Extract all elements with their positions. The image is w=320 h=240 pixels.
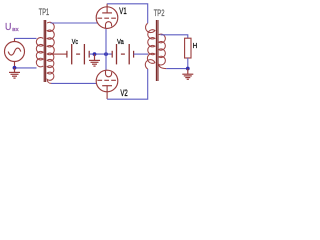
wire TP2 secondary bottom to ground node bbox=[166, 68, 188, 70]
wire TP2 secondary top to load bbox=[161, 35, 188, 38]
transformer TP2 secondary winding bbox=[159, 34, 167, 68]
transformer TP2 core bbox=[156, 20, 158, 81]
svg-text:TP1: TP1 bbox=[39, 7, 49, 17]
wire cathodes V1-V2 bbox=[105, 29, 107, 71]
transformer TP1 secondary winding (centre-tapped) bbox=[47, 22, 54, 83]
transformer TP1 primary winding bbox=[36, 38, 43, 67]
V2 cathode bbox=[106, 70, 112, 77]
battery Va bbox=[112, 44, 133, 64]
V1 cathode bbox=[106, 22, 112, 29]
svg-text:Va: Va bbox=[117, 37, 124, 46]
wire TP1 centre tap to battery Vc bbox=[52, 53, 67, 55]
triode V1 bbox=[96, 4, 118, 29]
ground (left) bbox=[9, 68, 20, 78]
wire source bottom to TP1 primary bbox=[15, 67, 37, 69]
junction dot bottom-left bbox=[13, 66, 17, 70]
svg-text:TP2: TP2 bbox=[154, 8, 165, 18]
wire source top to TP1 primary bbox=[15, 37, 37, 39]
wire battery Vc to cathode node bbox=[89, 53, 112, 55]
resistor H (load) bbox=[185, 38, 191, 58]
wire TP1 secondary bottom to V2 grid bbox=[51, 82, 96, 84]
transformer TP2 primary winding (centre-tapped) bbox=[145, 23, 155, 69]
wire resistor bottom to ground node bbox=[187, 58, 189, 69]
V2 grid (dashed) bbox=[97, 79, 116, 81]
ground (right) bbox=[182, 69, 193, 80]
wire TP1 secondary top to V1 grid bbox=[51, 22, 98, 24]
junction dot cathode node bbox=[104, 52, 108, 56]
triode V2 bbox=[96, 70, 118, 99]
V1 anode bbox=[102, 12, 112, 14]
svg-text:вх: вх bbox=[12, 27, 19, 33]
V1 grid (dashed) bbox=[97, 17, 116, 19]
svg-text:V2: V2 bbox=[120, 88, 127, 98]
label U_vx bbox=[5, 21, 19, 33]
ground (middle) bbox=[89, 54, 100, 66]
svg-text:H: H bbox=[193, 41, 198, 50]
wire battery Va to TP2 centre tap bbox=[134, 53, 149, 55]
svg-text:U: U bbox=[5, 21, 11, 33]
wire V2 anode to TP2 primary bottom bbox=[107, 69, 148, 99]
wire V1 anode to TP2 primary top bbox=[107, 4, 148, 24]
junction dot ground node bbox=[93, 52, 97, 56]
AC source U_vx bbox=[5, 38, 25, 68]
svg-text:Vc: Vc bbox=[72, 37, 79, 46]
V2 anode bbox=[102, 85, 112, 87]
junction dot right bbox=[186, 67, 190, 71]
battery Vc bbox=[67, 44, 89, 64]
svg-text:V1: V1 bbox=[119, 6, 126, 16]
transformer TP1 core bbox=[44, 20, 45, 82]
